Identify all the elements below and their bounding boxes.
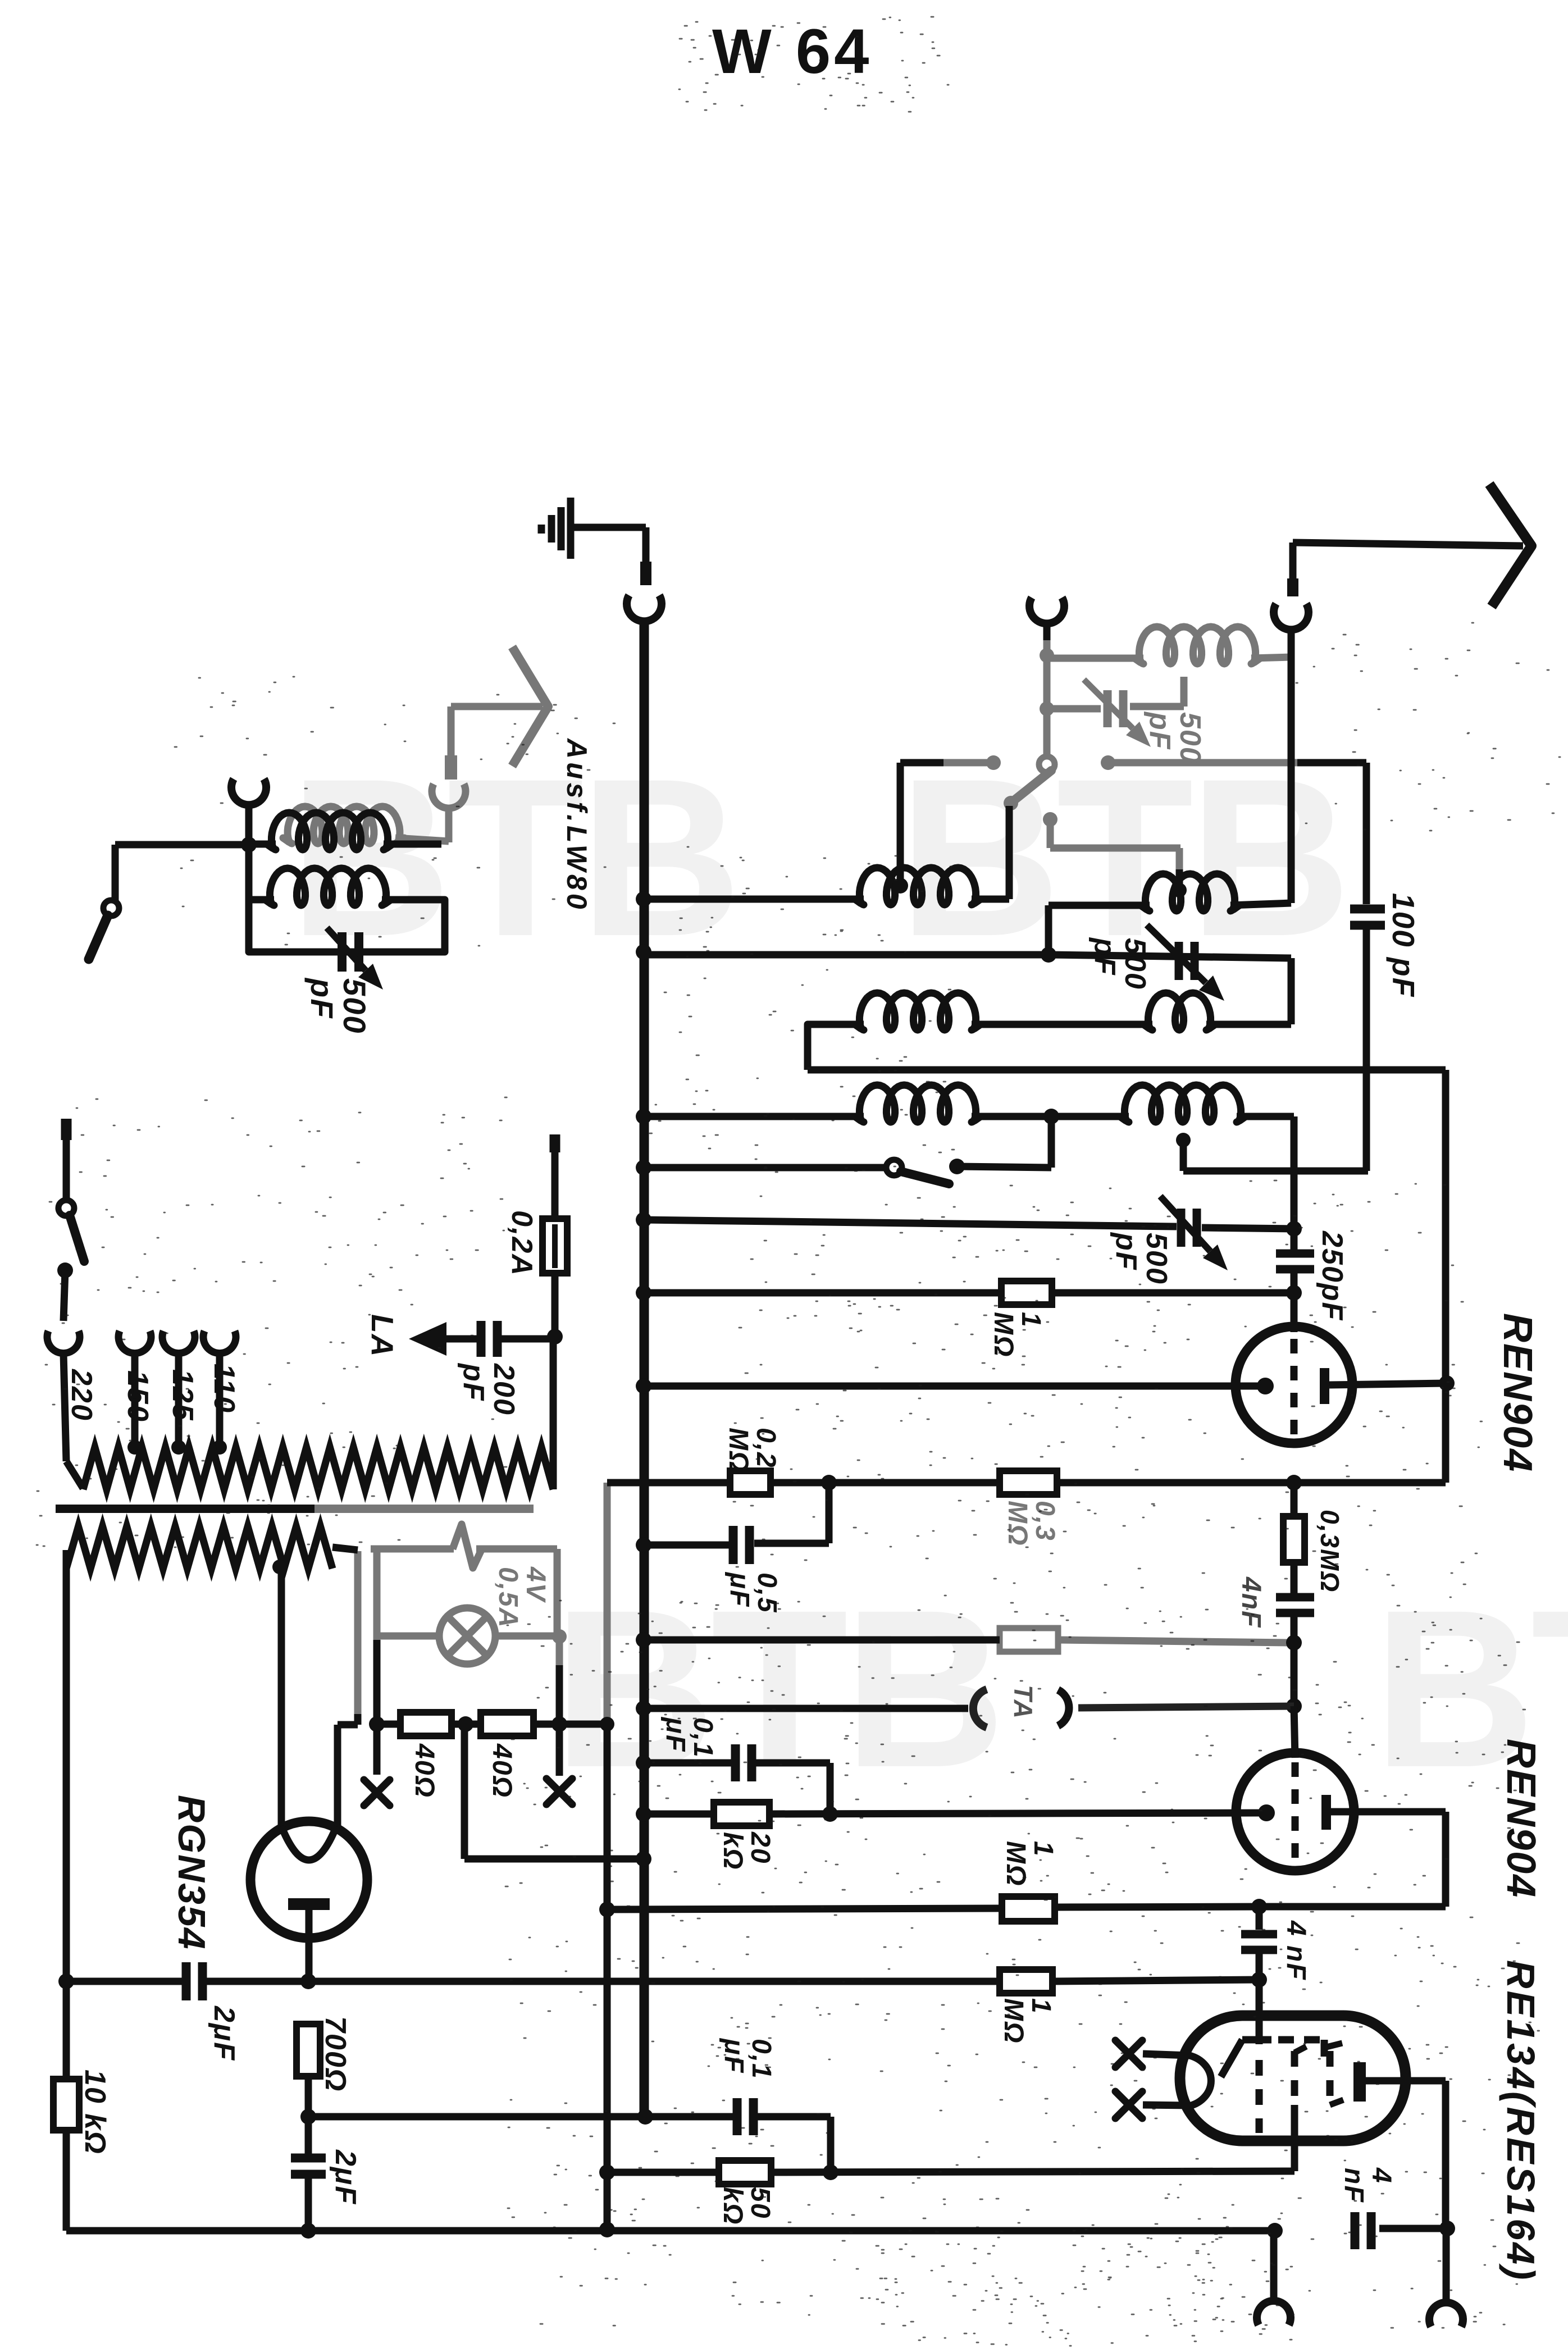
svg-text:110: 110 [208,1364,240,1414]
svg-text:RE134(RES164): RE134(RES164) [1499,1960,1543,2282]
svg-text:W 64: W 64 [712,16,872,86]
svg-text:0,2A: 0,2A [505,1210,538,1277]
svg-text:4 nF: 4 nF [1281,1920,1311,1981]
svg-text:40Ω: 40Ω [487,1743,517,1798]
svg-text:0,1μF: 0,1μF [660,1716,718,1758]
svg-text:0,3MΩ: 0,3MΩ [1002,1501,1060,1546]
svg-text:220: 220 [65,1369,98,1421]
svg-text:4nF: 4nF [1236,1576,1266,1628]
svg-text:RGN354: RGN354 [170,1795,213,1950]
svg-text:TA: TA [1009,1685,1038,1720]
svg-text:REN904: REN904 [1495,1313,1540,1473]
svg-text:0,5μF: 0,5μF [724,1571,782,1613]
svg-text:40Ω: 40Ω [409,1743,439,1798]
svg-text:2μF: 2μF [329,2149,362,2205]
svg-text:10 kΩ: 10 kΩ [79,2070,111,2155]
svg-text:700Ω: 700Ω [319,2016,352,2092]
svg-text:0,2MΩ: 0,2MΩ [723,1428,781,1473]
svg-text:2μF: 2μF [208,2005,240,2061]
svg-text:Ausf.LW80: Ausf.LW80 [561,737,592,913]
svg-text:LA: LA [365,1314,400,1357]
svg-text:150: 150 [121,1370,154,1423]
svg-text:0,3MΩ: 0,3MΩ [1315,1510,1344,1593]
svg-text:125: 125 [166,1369,199,1421]
svg-text:100 pF: 100 pF [1386,893,1421,997]
svg-text:REN904: REN904 [1498,1739,1543,1898]
